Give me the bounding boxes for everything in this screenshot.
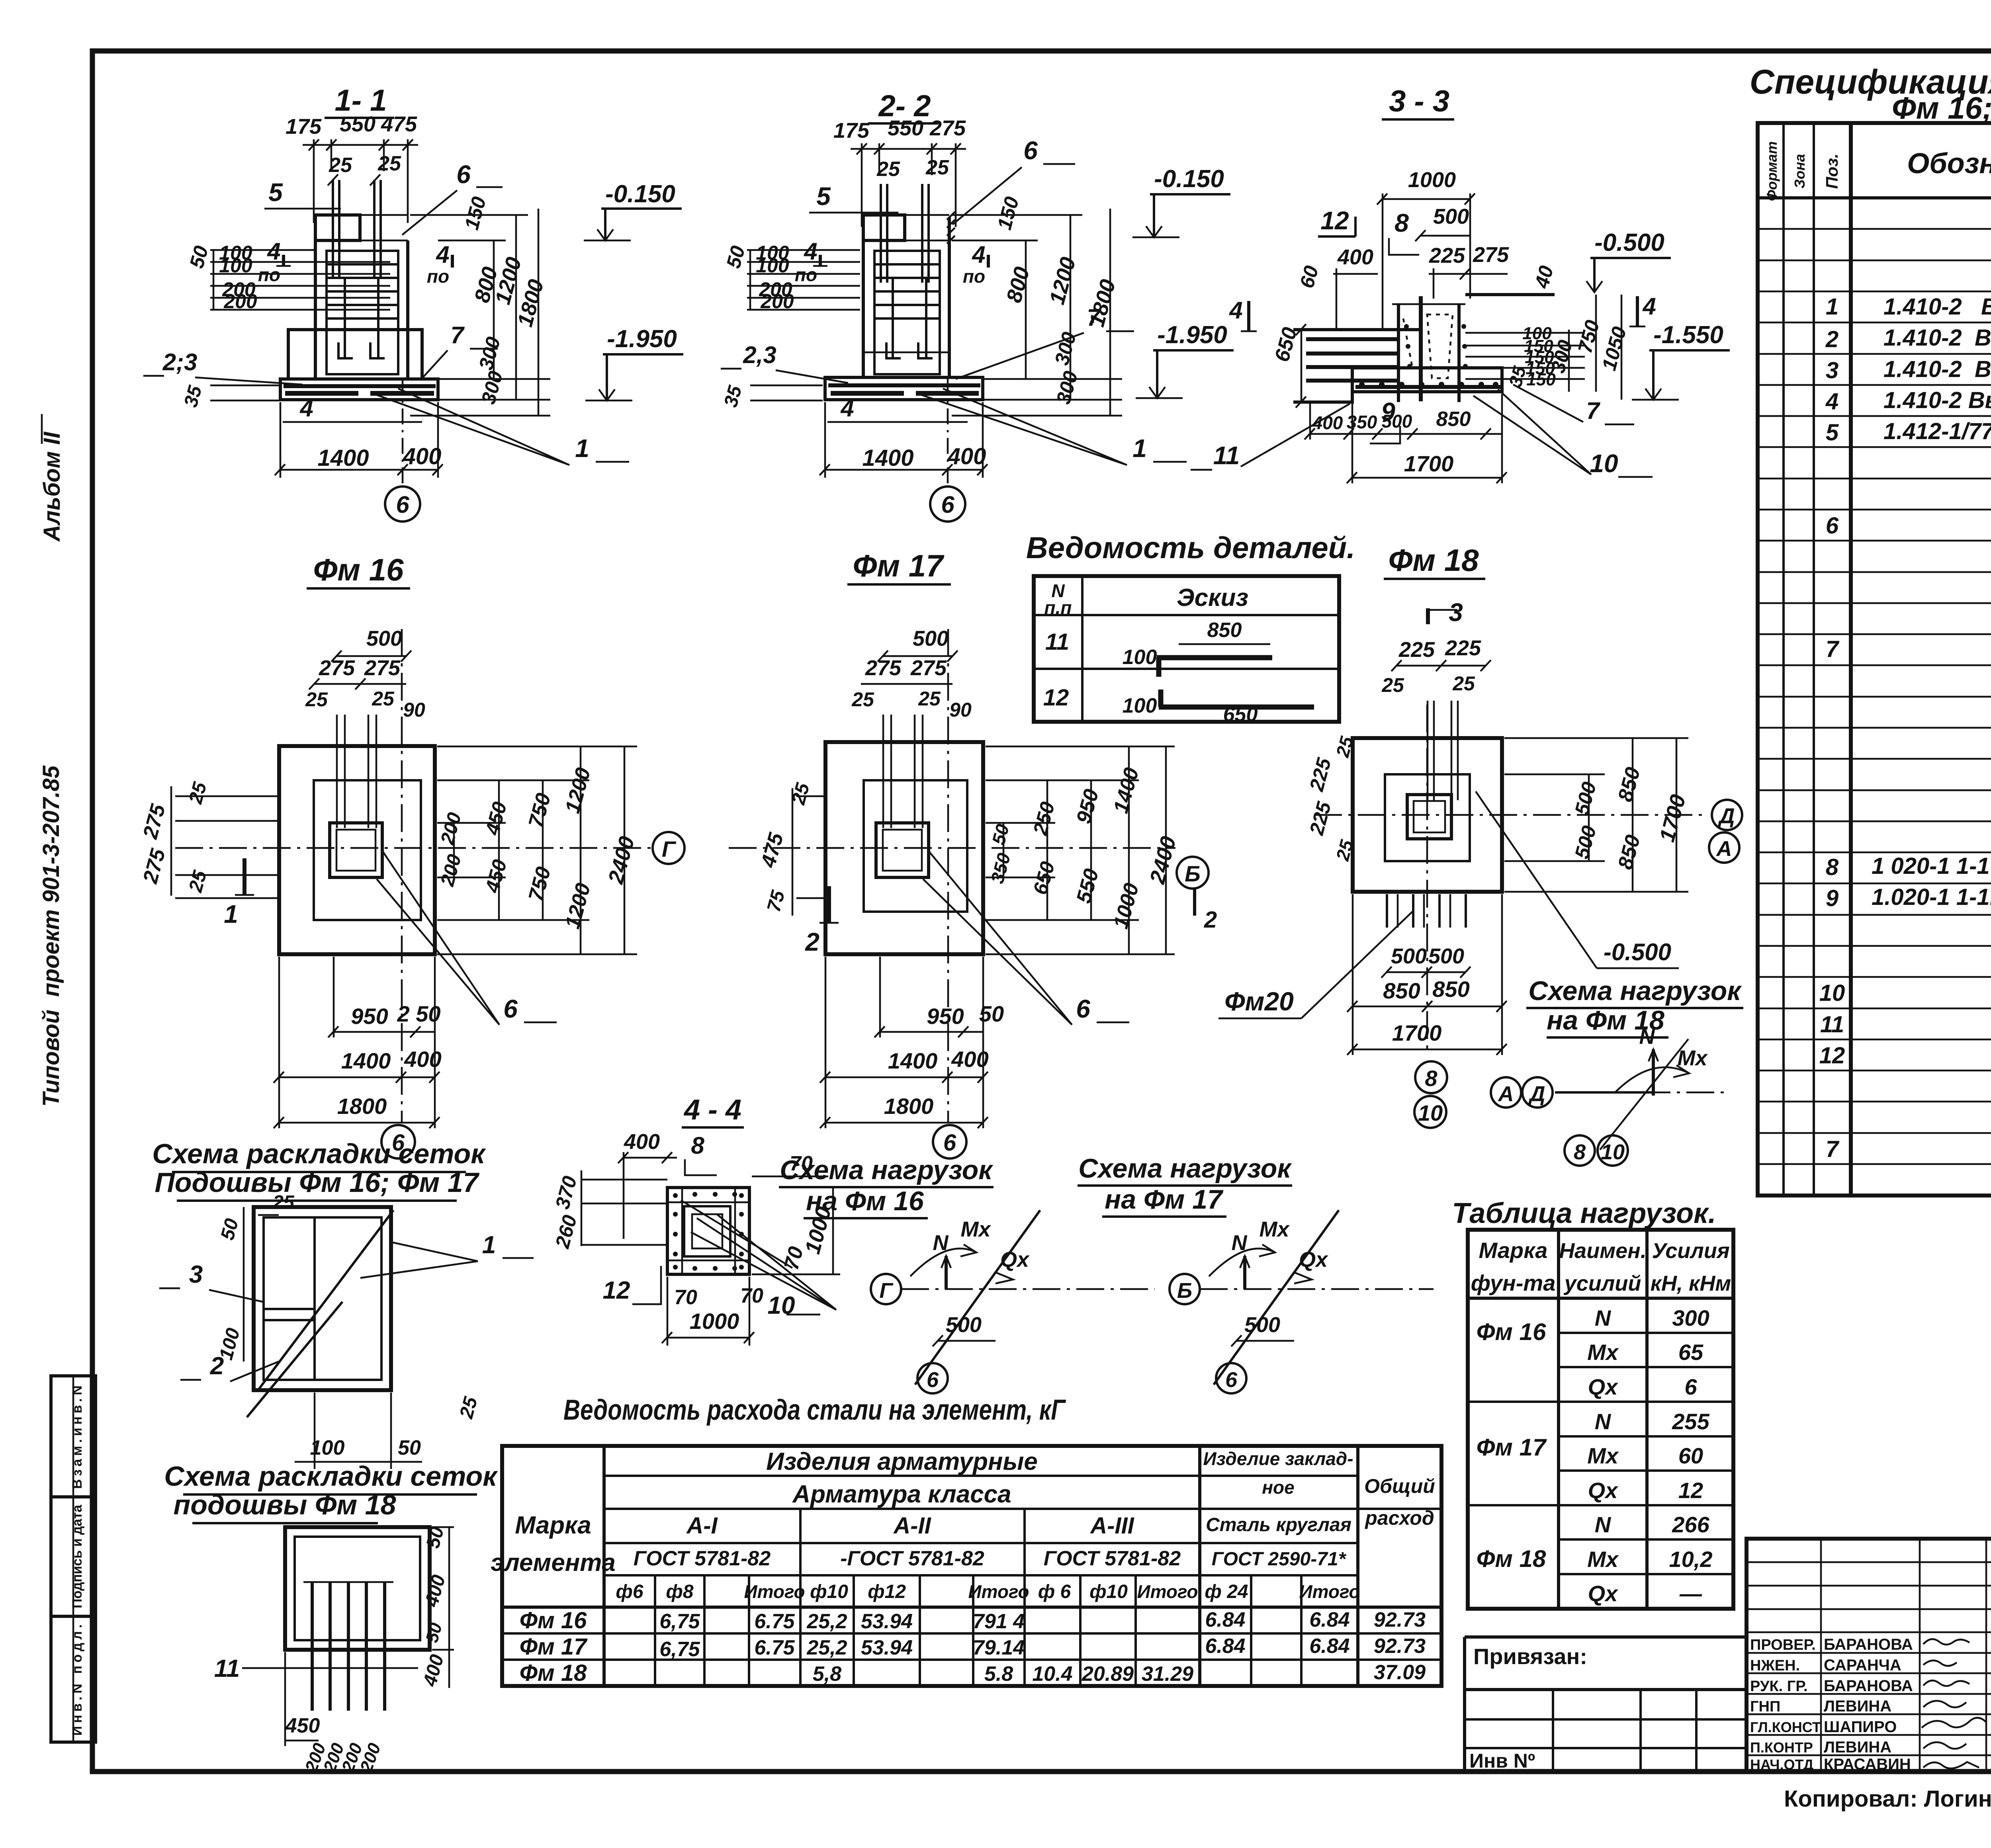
bottom circles 8 10 — [1415, 1061, 1447, 1093]
svg-text:Сталь круглая: Сталь круглая — [1206, 1514, 1351, 1535]
svg-text:-0.500: -0.500 — [1604, 939, 1671, 965]
svg-text:500: 500 — [946, 1313, 982, 1337]
svg-text:Поз.: Поз. — [1823, 154, 1841, 189]
svg-text:4: 4 — [1825, 389, 1838, 414]
svg-text:по: по — [427, 266, 449, 287]
svg-text:6.75: 6.75 — [754, 1636, 795, 1659]
svg-text:37.09: 37.09 — [1374, 1661, 1426, 1684]
svg-text:950: 950 — [927, 1004, 964, 1029]
svg-text:ф12: ф12 — [868, 1581, 906, 1602]
svg-text:6.75: 6.75 — [754, 1610, 795, 1633]
svg-text:НАЧ.ОТД: НАЧ.ОТД — [1750, 1756, 1813, 1773]
svg-text:500: 500 — [366, 627, 402, 651]
svg-text:100: 100 — [1123, 694, 1157, 717]
svg-text:950: 950 — [351, 1004, 388, 1029]
centerlines — [175, 847, 652, 849]
svg-text:350: 350 — [1347, 412, 1377, 432]
svg-text:6,75: 6,75 — [659, 1610, 700, 1633]
svg-text:п.п: п.п — [1044, 597, 1072, 618]
svg-text:Эскиз: Эскиз — [1177, 584, 1248, 611]
section mark 2 — [827, 886, 831, 923]
svg-text:70: 70 — [674, 1286, 697, 1309]
svg-text:3: 3 — [1826, 357, 1838, 383]
svg-text:Марка: Марка — [1479, 1238, 1548, 1263]
svg-text:25,2: 25,2 — [806, 1636, 847, 1659]
svg-text:1: 1 — [1132, 434, 1147, 463]
svg-text:Общий: Общий — [1364, 1475, 1435, 1497]
svg-text:1400: 1400 — [317, 445, 369, 471]
svg-text:150: 150 — [1526, 370, 1556, 389]
svg-text:ф10: ф10 — [810, 1581, 848, 1602]
svg-text:Схема раскладки сеток: Схема раскладки сеток — [152, 1138, 486, 1169]
svg-text:5: 5 — [816, 182, 831, 211]
baseline — [1555, 1092, 1730, 1094]
svg-text:Mx: Mx — [1587, 1340, 1619, 1365]
svg-text:500: 500 — [1428, 944, 1464, 968]
column outline — [315, 215, 360, 240]
svg-text:275: 275 — [319, 656, 355, 680]
svg-text:25: 25 — [1381, 674, 1404, 696]
svg-text:1800: 1800 — [884, 1094, 934, 1119]
svg-text:25: 25 — [272, 1192, 295, 1213]
svg-text:275: 275 — [929, 116, 966, 140]
svg-text:Фм 17: Фм 17 — [853, 548, 945, 583]
svg-text:1400: 1400 — [862, 445, 913, 471]
svg-text:4: 4 — [972, 241, 985, 268]
svg-text:элемента: элемента — [491, 1549, 616, 1576]
svg-text:550: 550 — [888, 116, 923, 140]
svg-text:ГОСТ 5781-82: ГОСТ 5781-82 — [1044, 1547, 1181, 1570]
svg-text:1400: 1400 — [888, 1048, 938, 1073]
section 3-3 — [1191, 84, 1730, 483]
svg-text:Qx: Qx — [1588, 1478, 1619, 1503]
svg-text:Зона: Зона — [1792, 154, 1808, 189]
svg-text:7: 7 — [1826, 1136, 1840, 1162]
svg-text:ПРОВЕР.: ПРОВЕР. — [1750, 1637, 1816, 1653]
svg-text:400: 400 — [624, 1130, 660, 1154]
footing — [280, 379, 438, 400]
svg-text:275: 275 — [910, 656, 947, 680]
right mesh ladder — [1465, 332, 1585, 334]
svg-text:65: 65 — [1678, 1340, 1703, 1365]
svg-text:31.29: 31.29 — [1142, 1662, 1193, 1686]
svg-text:11: 11 — [214, 1655, 240, 1682]
svg-text:300: 300 — [1672, 1305, 1709, 1330]
svg-text:Mx: Mx — [1259, 1217, 1290, 1241]
title block — [1747, 1539, 1991, 1773]
svg-text:фун-та: фун-та — [1471, 1270, 1556, 1295]
svg-text:Фм 17: Фм 17 — [1477, 1434, 1547, 1461]
svg-text:1: 1 — [575, 434, 589, 463]
svg-text:500: 500 — [1382, 411, 1412, 432]
svg-text:ЛЕВИНА: ЛЕВИНА — [1824, 1698, 1891, 1715]
axis circle 6 bottom — [381, 1125, 415, 1158]
svg-text:ф6: ф6 — [616, 1581, 643, 1602]
svg-text:-ГОСТ 5781-82: -ГОСТ 5781-82 — [840, 1547, 984, 1570]
svg-text:2: 2 — [1204, 907, 1217, 933]
svg-text:850: 850 — [1383, 978, 1420, 1003]
mesh rect — [285, 1527, 430, 1650]
svg-text:Привязан:: Привязан: — [1473, 1644, 1587, 1669]
svg-text:90: 90 — [949, 699, 972, 721]
svg-text:ное: ное — [1262, 1477, 1294, 1498]
svg-text:791 4: 791 4 — [973, 1610, 1025, 1633]
svg-text:500: 500 — [913, 627, 949, 651]
svg-text:6.84: 6.84 — [1309, 1608, 1349, 1631]
svg-text:Схема нагрузок: Схема нагрузок — [780, 1155, 994, 1185]
anchor bolt lines — [336, 715, 338, 828]
diagonal — [915, 1210, 1040, 1385]
svg-text:Инв Nº: Инв Nº — [1469, 1750, 1535, 1772]
right dim chains — [986, 746, 1175, 748]
svg-text:12: 12 — [603, 1277, 630, 1304]
svg-text:6: 6 — [503, 994, 518, 1023]
svg-text:1000: 1000 — [690, 1309, 739, 1334]
outer footing contour — [279, 746, 435, 954]
svg-text:8: 8 — [1425, 1066, 1438, 1091]
svg-text:79.14: 79.14 — [973, 1636, 1025, 1659]
svg-text:ГОСТ 2590-71*: ГОСТ 2590-71* — [1212, 1549, 1347, 1570]
load scheme FM17 — [1078, 1153, 1434, 1393]
outer footing contour — [825, 742, 983, 954]
steel consumption table — [491, 1394, 1441, 1686]
svg-text:60: 60 — [1678, 1443, 1703, 1468]
axis circle 6 — [402, 379, 404, 486]
svg-text:Mx: Mx — [1677, 1046, 1708, 1070]
svg-text:Усилия: Усилия — [1652, 1239, 1729, 1263]
svg-text:7: 7 — [1826, 636, 1840, 662]
svg-text:12: 12 — [1819, 1043, 1845, 1069]
svg-text:N: N — [1595, 1512, 1612, 1537]
loads table — [1452, 1197, 1733, 1609]
svg-text:266: 266 — [1672, 1512, 1709, 1537]
axis circles A D — [1491, 1077, 1521, 1108]
svg-text:1.410-2 Вып.1: 1.410-2 Вып.1 — [1883, 356, 1991, 382]
svg-text:1: 1 — [482, 1231, 496, 1259]
middle step contour — [314, 780, 421, 920]
svg-text:Фм 16: Фм 16 — [1477, 1319, 1546, 1345]
weld hatch at column top right — [947, 212, 955, 220]
svg-text:10: 10 — [1819, 980, 1845, 1006]
svg-text:4: 4 — [1642, 293, 1656, 320]
right dim chains — [1025, 240, 1027, 379]
svg-text:ф 24: ф 24 — [1205, 1581, 1248, 1602]
bottom dims 1400 400 — [280, 402, 282, 478]
privyazan block — [1465, 1637, 1747, 1772]
svg-text:расход: расход — [1364, 1507, 1434, 1529]
square outline — [667, 1188, 749, 1274]
svg-text:Фм 17: Фм 17 — [520, 1634, 588, 1660]
svg-text:Таблица нагрузок.: Таблица нагрузок. — [1452, 1197, 1716, 1229]
svg-text:подошвы Фм 18: подошвы Фм 18 — [173, 1489, 396, 1520]
svg-text:6: 6 — [456, 160, 471, 189]
svg-text:3: 3 — [1449, 598, 1463, 627]
svg-text:Г: Г — [662, 836, 677, 861]
svg-text:8: 8 — [691, 1132, 704, 1159]
diagonal — [1600, 1039, 1688, 1150]
svg-text:25: 25 — [851, 688, 874, 711]
svg-text:4 - 4: 4 - 4 — [683, 1094, 741, 1126]
svg-text:Схема нагрузок: Схема нагрузок — [1078, 1153, 1292, 1184]
svg-text:Б: Б — [1177, 1279, 1192, 1303]
svg-text:11: 11 — [1213, 441, 1240, 470]
svg-text:10.4: 10.4 — [1032, 1662, 1072, 1686]
svg-text:Г: Г — [879, 1279, 894, 1303]
anchor bolts — [332, 180, 334, 279]
svg-text:ЛЕВИНА: ЛЕВИНА — [1824, 1739, 1891, 1756]
svg-text:3: 3 — [189, 1261, 203, 1288]
svg-text:400: 400 — [403, 443, 442, 469]
section 1-1 — [143, 84, 683, 522]
ground level lines — [1293, 328, 1421, 331]
svg-text:7: 7 — [1087, 304, 1101, 331]
reinforcement cage — [327, 251, 398, 374]
svg-text:N: N — [1595, 1305, 1612, 1330]
svg-text:Qx: Qx — [1588, 1374, 1619, 1399]
step block — [288, 330, 422, 379]
left mesh bars — [1306, 337, 1398, 341]
svg-text:25: 25 — [305, 688, 328, 711]
svg-text:Фм 16: Фм 16 — [520, 1608, 587, 1633]
svg-text:по: по — [963, 266, 985, 287]
left dim ladder — [747, 249, 860, 251]
svg-text:850: 850 — [1436, 408, 1471, 431]
left margin stamp strip — [51, 1376, 96, 1742]
svg-text:-0.500: -0.500 — [1594, 229, 1664, 256]
svg-text:ШАПИРО: ШАПИРО — [1824, 1718, 1897, 1736]
svg-text:А-I: А-I — [686, 1513, 718, 1539]
svg-text:200: 200 — [760, 290, 794, 313]
svg-text:400: 400 — [404, 1047, 441, 1072]
svg-text:6: 6 — [1684, 1374, 1697, 1399]
svg-text:500: 500 — [1244, 1313, 1280, 1337]
svg-text:1.410-2 Вып.1: 1.410-2 Вып.1 — [1883, 387, 1991, 413]
anchor bolts — [880, 184, 882, 283]
svg-text:4: 4 — [267, 238, 280, 265]
svg-text:255: 255 — [1672, 1409, 1709, 1434]
svg-text:6: 6 — [1023, 136, 1038, 165]
circle 6 — [917, 1363, 948, 1393]
svg-text:53.94: 53.94 — [861, 1610, 913, 1633]
svg-text:-0.150: -0.150 — [1154, 165, 1224, 193]
outer footing contour — [1353, 738, 1502, 892]
svg-text:Фм 18: Фм 18 — [1388, 543, 1479, 578]
load scheme FM16 — [779, 1155, 1155, 1393]
svg-text:100: 100 — [219, 254, 252, 277]
plan FM17 — [729, 548, 1217, 1158]
section mark 1 — [243, 858, 246, 895]
svg-text:Mx: Mx — [960, 1217, 991, 1241]
svg-text:8: 8 — [1826, 854, 1839, 880]
svg-text:РУК. ГР.: РУК. ГР. — [1750, 1678, 1808, 1695]
svg-text:-1.950: -1.950 — [1157, 321, 1227, 349]
svg-text:70: 70 — [740, 1284, 763, 1307]
svg-text:25: 25 — [925, 156, 949, 179]
axis circles D A — [1712, 800, 1742, 830]
svg-text:Mx: Mx — [1587, 1547, 1619, 1572]
svg-text:275: 275 — [364, 656, 401, 680]
inner ties — [667, 1201, 749, 1203]
svg-text:N: N — [1639, 1025, 1655, 1049]
centerlines — [729, 847, 1175, 849]
svg-text:4: 4 — [1229, 297, 1242, 324]
svg-text:-1.550: -1.550 — [1653, 321, 1723, 349]
section 4-4 — [551, 1094, 840, 1346]
svg-text:Ведомость расхода стали на эле: Ведомость расхода стали на элемент, кГ — [563, 1394, 1066, 1426]
svg-text:10: 10 — [1590, 449, 1618, 478]
bolt legs below — [1386, 894, 1388, 928]
svg-text:6: 6 — [927, 1368, 939, 1392]
svg-text:ф8: ф8 — [666, 1581, 693, 1602]
svg-text:Изделие заклад-: Изделие заклад- — [1203, 1448, 1353, 1469]
svg-text:25: 25 — [1452, 672, 1475, 695]
svg-text:53.94: 53.94 — [861, 1636, 913, 1659]
svg-text:450: 450 — [285, 1714, 320, 1737]
svg-text:25: 25 — [918, 688, 941, 710]
svg-text:2: 2 — [1825, 326, 1838, 352]
svg-text:25: 25 — [372, 688, 395, 710]
svg-text:3 - 3: 3 - 3 — [1389, 84, 1449, 118]
vedomost detaley table — [1026, 531, 1355, 726]
right dim chains — [437, 746, 637, 748]
svg-text:Типовой проект 901-3-207.85: Типовой проект 901-3-207.85 — [38, 765, 64, 1107]
svg-text:ф10: ф10 — [1089, 1581, 1128, 1602]
svg-text:25: 25 — [876, 158, 900, 181]
svg-text:Наимен.: Наимен. — [1559, 1239, 1647, 1263]
svg-text:475: 475 — [381, 112, 417, 136]
svg-text:8: 8 — [1574, 1140, 1586, 1164]
svg-text:6: 6 — [1225, 1368, 1238, 1392]
svg-text:275: 275 — [865, 656, 902, 680]
svg-text:400: 400 — [1312, 412, 1343, 433]
svg-text:100: 100 — [756, 254, 789, 277]
svg-text:5: 5 — [1826, 420, 1839, 445]
svg-text:П.КОНТР: П.КОНТР — [1750, 1739, 1813, 1756]
svg-text:4: 4 — [840, 395, 854, 422]
svg-text:1.410-2 Вып.1: 1.410-2 Вып.1 — [1883, 325, 1991, 351]
bottom dims 1400 400 — [824, 402, 826, 478]
rebar dots — [673, 1193, 678, 1198]
bars — [311, 1582, 314, 1711]
svg-text:по: по — [795, 264, 817, 285]
svg-text:Фм 18: Фм 18 — [520, 1660, 587, 1686]
svg-text:10,2: 10,2 — [1669, 1547, 1713, 1572]
svg-text:4: 4 — [299, 395, 313, 422]
svg-text:ГНП: ГНП — [1750, 1698, 1780, 1715]
footing — [1352, 368, 1502, 392]
svg-text:САРАНЧА: САРАНЧА — [1824, 1657, 1901, 1674]
svg-text:12: 12 — [1043, 685, 1069, 711]
svg-text:1 020-1 1-1 0.0 10 -07: 1 020-1 1-1 0.0 10 -07 — [1872, 853, 1991, 879]
svg-text:НЖЕН.: НЖЕН. — [1750, 1657, 1800, 1674]
svg-text:1400: 1400 — [341, 1048, 391, 1073]
bottom dims 400 350 500 850 — [1310, 433, 1502, 435]
svg-text:6: 6 — [943, 1130, 956, 1156]
left dim ladder — [210, 249, 315, 251]
footing mesh bars — [284, 384, 436, 388]
svg-text:Альбом II: Альбом II — [39, 431, 65, 542]
axis circle B — [1177, 857, 1209, 889]
svg-text:25: 25 — [377, 152, 401, 175]
svg-text:кН, кНм: кН, кНм — [1651, 1272, 1731, 1295]
column outline — [863, 215, 905, 240]
right dim chains — [1504, 737, 1688, 739]
svg-text:Д: Д — [1528, 1082, 1545, 1106]
svg-text:2: 2 — [805, 928, 819, 956]
svg-text:Б: Б — [1185, 861, 1201, 886]
svg-text:4: 4 — [804, 238, 817, 265]
svg-text:10: 10 — [1418, 1100, 1443, 1125]
svg-text:Ведомость деталей.: Ведомость деталей. — [1026, 531, 1355, 565]
svg-text:на Фм 17: на Фм 17 — [1105, 1184, 1224, 1215]
svg-text:5: 5 — [268, 178, 283, 207]
svg-text:Итого: Итого — [1137, 1581, 1198, 1602]
svg-text:Подошвы Фм 16; Фм 17: Подошвы Фм 16; Фм 17 — [155, 1167, 479, 1198]
svg-text:1.020-1 1-1.00.10-01: 1.020-1 1-1.00.10-01 — [1872, 884, 1991, 910]
svg-text:Схема нагрузок: Схема нагрузок — [1528, 976, 1742, 1006]
svg-text:92.73: 92.73 — [1374, 1635, 1426, 1658]
baseline dashdot — [901, 1288, 1155, 1290]
load scheme FM18 — [1491, 976, 1743, 1166]
svg-text:6: 6 — [1076, 994, 1090, 1023]
mesh layout scheme FM18 — [164, 1461, 498, 1775]
svg-text:Итого: Итого — [968, 1581, 1029, 1602]
svg-text:6.84: 6.84 — [1205, 1608, 1245, 1631]
svg-text:Обозначение: Обозначение — [1907, 148, 1991, 180]
footing — [825, 377, 983, 400]
plan FM18 — [1218, 543, 1742, 1128]
svg-text:400: 400 — [1337, 245, 1373, 269]
mesh layout scheme FM16 FM17 — [152, 1138, 534, 1469]
svg-text:2;3: 2;3 — [162, 349, 198, 375]
svg-text:1000: 1000 — [1408, 168, 1456, 192]
svg-text:500: 500 — [1391, 944, 1427, 968]
svg-text:92.73: 92.73 — [1374, 1608, 1426, 1631]
svg-text:Арматура класса: Арматура класса — [792, 1481, 1011, 1508]
svg-text:усилий: усилий — [1563, 1272, 1641, 1295]
svg-text:-1.950: -1.950 — [607, 325, 677, 353]
centerlines — [1314, 814, 1708, 816]
svg-text:550: 550 — [340, 112, 376, 136]
svg-text:ГОСТ 5781-82: ГОСТ 5781-82 — [634, 1547, 771, 1570]
svg-text:7: 7 — [1586, 397, 1600, 424]
svg-text:11: 11 — [1820, 1012, 1844, 1037]
svg-text:2,3: 2,3 — [743, 342, 776, 368]
svg-text:Формат: Формат — [1764, 141, 1780, 201]
bottom circles 8 10 — [1565, 1135, 1595, 1166]
svg-text:Итого: Итого — [744, 1581, 805, 1602]
svg-text:4: 4 — [436, 241, 449, 268]
svg-text:25: 25 — [329, 154, 352, 177]
svg-text:—: — — [1679, 1581, 1702, 1606]
svg-text:Марка: Марка — [515, 1512, 591, 1539]
svg-text:5,8: 5,8 — [813, 1662, 841, 1686]
specification table grid — [1758, 123, 1991, 1196]
anchor trapezoid dotted — [1427, 315, 1453, 378]
svg-text:7: 7 — [450, 322, 465, 348]
svg-text:по: по — [258, 264, 280, 285]
svg-text:100: 100 — [1123, 646, 1157, 669]
svg-text:ф 6: ф 6 — [1038, 1581, 1071, 1602]
axis circle 6 bottom — [933, 1125, 966, 1158]
svg-text:1700: 1700 — [1404, 451, 1454, 476]
svg-text:6: 6 — [1826, 513, 1839, 539]
svg-text:Фм 16; Фм 17; Фм 18.: Фм 16; Фм 17; Фм 18. — [1892, 90, 1991, 125]
svg-text:850: 850 — [1207, 619, 1242, 642]
svg-text:Фм 18: Фм 18 — [1477, 1545, 1546, 1572]
right dim chain — [1568, 330, 1570, 392]
mesh outer rect — [254, 1207, 391, 1390]
